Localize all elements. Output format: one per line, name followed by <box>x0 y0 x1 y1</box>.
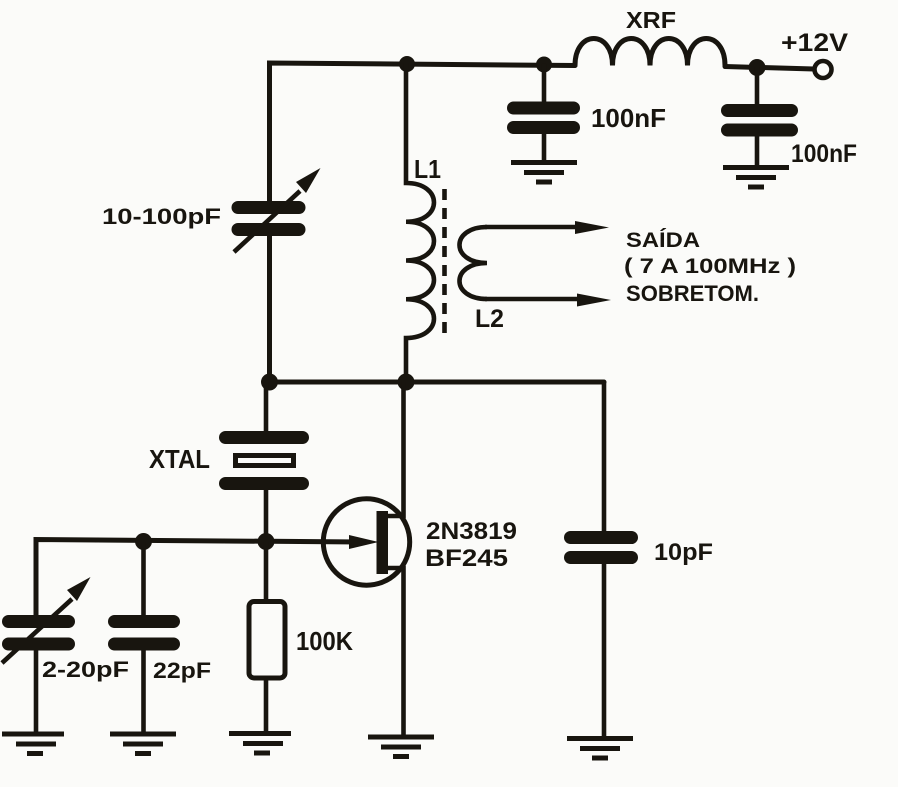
inductor L1 primary <box>406 63 434 382</box>
wire drain <box>387 382 404 516</box>
wire C1 top <box>542 64 547 104</box>
svg-text:SAÍDA: SAÍDA <box>626 227 700 252</box>
wire output arrow top <box>485 225 585 230</box>
arrow CV1 <box>234 191 300 252</box>
svg-text:( 7 A 100MHz ): ( 7 A 100MHz ) <box>624 255 796 278</box>
wire C2 top <box>755 67 760 106</box>
node gate-22pF <box>135 533 152 550</box>
svg-text:2N3819: 2N3819 <box>426 518 517 545</box>
crystal XTAL <box>226 438 303 484</box>
resistor R1 100K <box>249 602 285 679</box>
svg-text:100nF: 100nF <box>791 140 857 168</box>
node top-right <box>749 59 766 76</box>
wire 10pF top <box>602 382 607 533</box>
ground 10pF <box>567 739 633 759</box>
svg-text:2-20pF: 2-20pF <box>42 657 129 682</box>
ground C1 <box>511 163 577 183</box>
inductor L2 secondary <box>459 227 487 299</box>
node mid-left <box>261 374 278 391</box>
node gate-XTAL <box>258 533 275 550</box>
capacitor C4 10pF <box>571 538 632 558</box>
ground 100K <box>229 734 291 754</box>
svg-text:100nF: 100nF <box>591 103 666 133</box>
terminal +12V <box>815 61 832 78</box>
wire mid rail <box>270 380 605 385</box>
svg-text:+12V: +12V <box>781 29 848 57</box>
wire XTAL top <box>264 382 269 433</box>
svg-text:10-100pF: 10-100pF <box>102 204 221 229</box>
wire 100K top <box>264 542 269 602</box>
transistor Q1 gate arrow <box>349 535 379 549</box>
wire C2 bottom <box>755 136 760 167</box>
wire 100K bottom <box>264 680 269 732</box>
core dashed line <box>442 189 447 341</box>
ground 22pF <box>110 734 176 754</box>
svg-text:10pF: 10pF <box>654 539 713 566</box>
wire CT1 bottom <box>34 650 39 733</box>
ground source <box>368 737 434 757</box>
svg-text:L2: L2 <box>475 305 504 333</box>
arrow CT1 <box>2 599 72 663</box>
wire 10pF bottom <box>602 564 607 738</box>
transistor Q1 2N3819 circle <box>323 499 409 585</box>
wire top rail <box>270 63 576 204</box>
capacitor C2 100nF <box>728 111 792 131</box>
svg-text:BF245: BF245 <box>425 545 508 572</box>
wire coil output to +12V <box>725 67 814 70</box>
node top-C1 <box>536 57 552 73</box>
ground C2 <box>723 168 789 188</box>
wire CV1 to mid rail <box>267 233 272 382</box>
wire 22pF bottom <box>141 650 146 733</box>
capacitor CT1 2-20pF trimmer <box>9 622 69 645</box>
svg-text:SOBRETOM.: SOBRETOM. <box>626 281 759 306</box>
capacitor C1 100nF <box>514 108 574 128</box>
node mid-center <box>398 374 415 391</box>
wire XTAL bottom <box>264 488 269 542</box>
ground CT1 <box>2 734 64 754</box>
wire 22pF top <box>141 542 146 618</box>
svg-text:XRF: XRF <box>626 7 676 33</box>
node top-L1 <box>399 56 415 72</box>
svg-text:XTAL: XTAL <box>149 444 210 474</box>
wire C1 bottom <box>542 134 547 162</box>
wire output arrow bottom <box>485 297 587 302</box>
capacitor CV1 10-100pF variable <box>238 208 299 230</box>
svg-text:22pF: 22pF <box>153 658 211 683</box>
wire gate rail <box>36 540 360 618</box>
capacitor C3 22pF <box>115 622 174 645</box>
transistor Q1 channel bar <box>377 511 389 574</box>
wire source <box>387 568 404 736</box>
inductor XRF choke <box>575 39 725 66</box>
svg-text:100K: 100K <box>296 626 353 656</box>
svg-text:L1: L1 <box>414 154 441 184</box>
